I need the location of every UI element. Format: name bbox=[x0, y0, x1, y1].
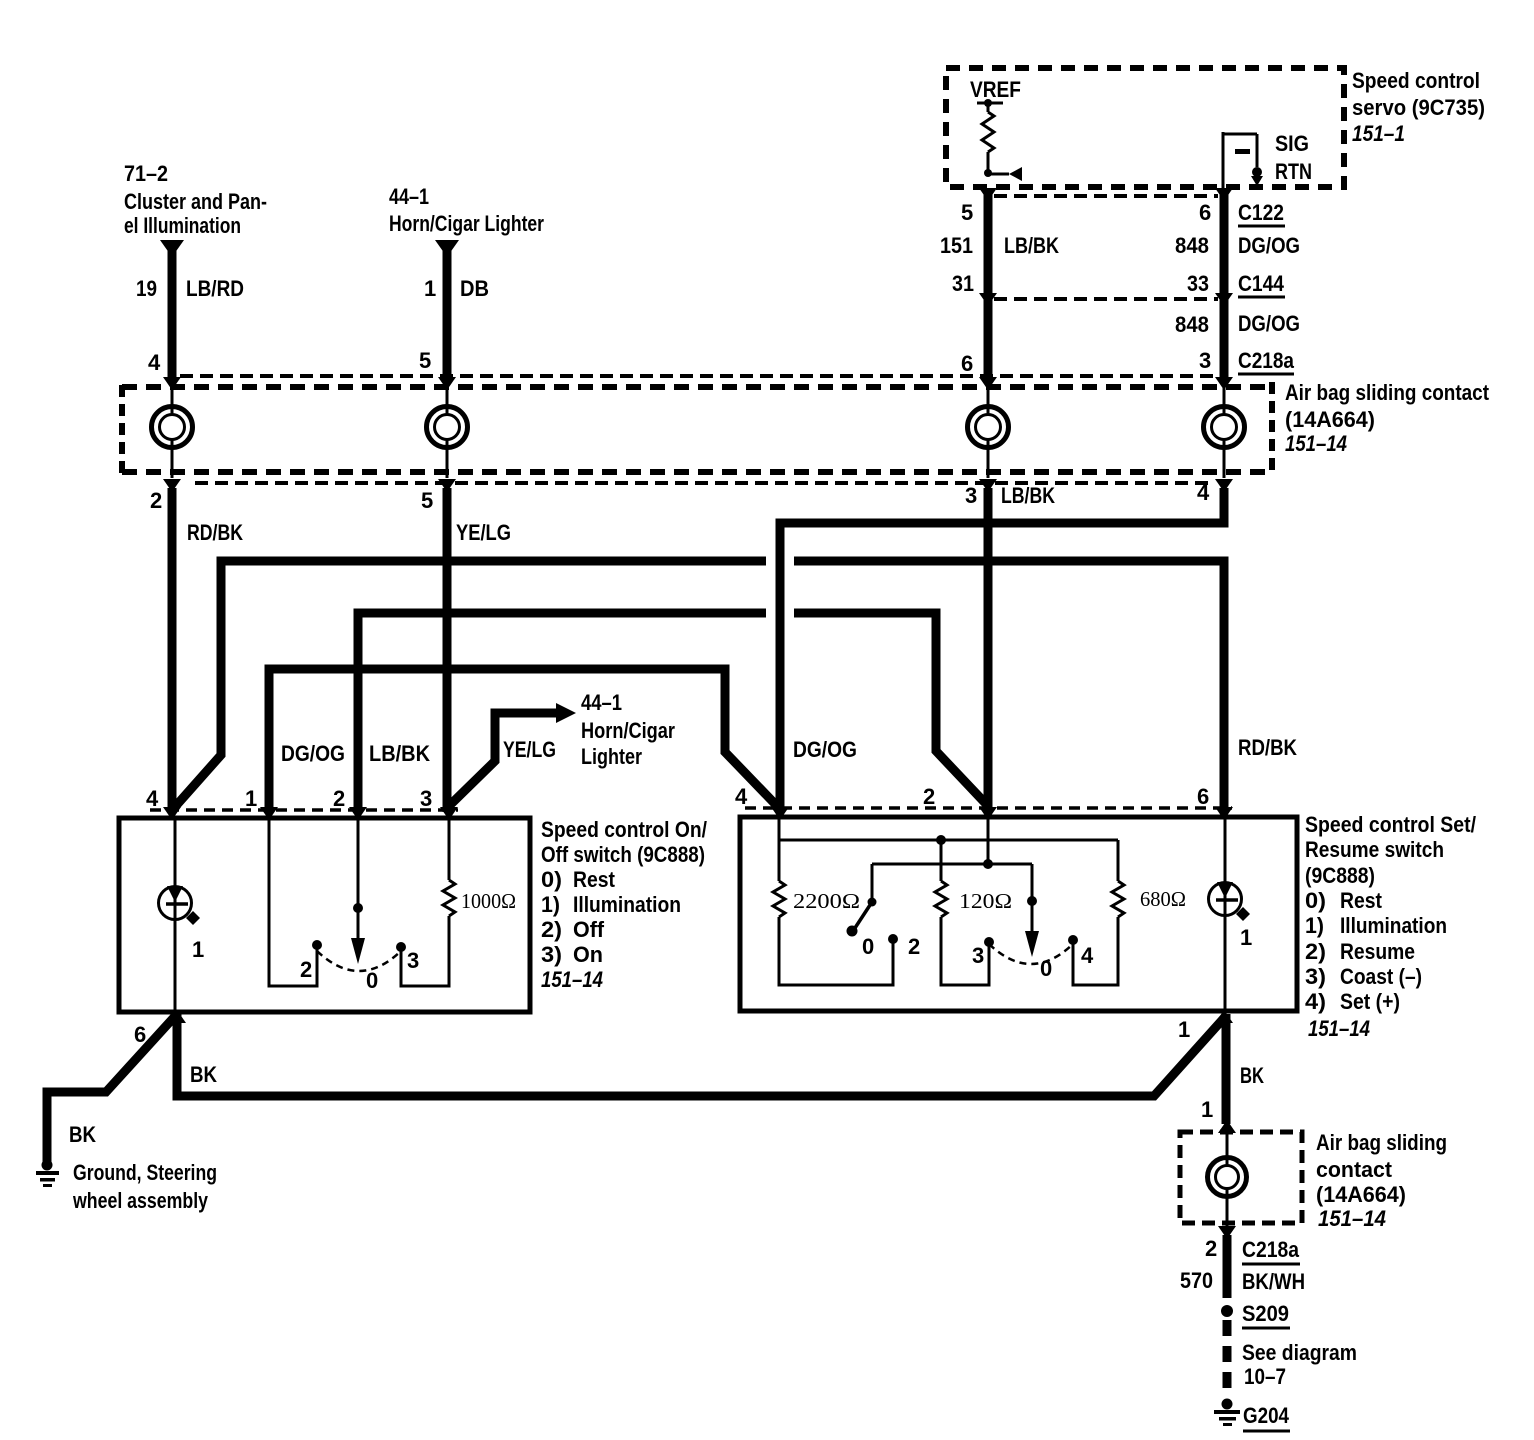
svg-text:DG/OG: DG/OG bbox=[1238, 311, 1300, 336]
svg-text:2: 2 bbox=[333, 786, 345, 811]
svg-text:RD/BK: RD/BK bbox=[1238, 735, 1297, 760]
svg-text:3: 3 bbox=[420, 786, 432, 811]
svg-text:1000Ω: 1000Ω bbox=[461, 889, 516, 913]
svg-text:1: 1 bbox=[1201, 1097, 1213, 1122]
svg-text:4: 4 bbox=[1197, 480, 1210, 505]
svg-text:4: 4 bbox=[1081, 943, 1094, 968]
svg-text:151–1: 151–1 bbox=[1352, 121, 1405, 146]
svg-text:2: 2 bbox=[150, 488, 162, 513]
svg-text:Ground, Steering: Ground, Steering bbox=[73, 1160, 217, 1185]
svg-text:2: 2 bbox=[908, 934, 920, 959]
svg-text:Air bag sliding: Air bag sliding bbox=[1316, 1130, 1447, 1155]
svg-text:Illumination: Illumination bbox=[1340, 913, 1447, 938]
svg-text:5: 5 bbox=[421, 488, 433, 513]
svg-text:Set (+): Set (+) bbox=[1340, 989, 1400, 1014]
svg-text:848: 848 bbox=[1175, 233, 1209, 258]
svg-text:3: 3 bbox=[407, 948, 419, 973]
svg-text:31: 31 bbox=[952, 271, 974, 296]
svg-text:DG/OG: DG/OG bbox=[1238, 233, 1300, 258]
svg-text:151–14: 151–14 bbox=[541, 967, 603, 992]
svg-text:2): 2) bbox=[1305, 939, 1326, 964]
svg-text:Illumination: Illumination bbox=[573, 892, 681, 917]
svg-text:680Ω: 680Ω bbox=[1140, 887, 1186, 911]
svg-text:0): 0) bbox=[1305, 888, 1326, 913]
svg-text:DG/OG: DG/OG bbox=[281, 741, 345, 766]
svg-text:2: 2 bbox=[923, 784, 935, 809]
svg-text:1: 1 bbox=[1240, 925, 1252, 950]
svg-text:DB: DB bbox=[460, 276, 489, 301]
svg-text:120Ω: 120Ω bbox=[959, 889, 1012, 913]
svg-text:Speed control: Speed control bbox=[1352, 68, 1480, 93]
svg-text:848: 848 bbox=[1175, 312, 1209, 337]
svg-text:1: 1 bbox=[424, 276, 436, 301]
svg-text:1): 1) bbox=[1305, 913, 1324, 938]
svg-text:el Illumination: el Illumination bbox=[124, 213, 241, 238]
svg-text:6: 6 bbox=[961, 351, 973, 376]
svg-text:C218a: C218a bbox=[1238, 348, 1295, 373]
svg-text:DG/OG: DG/OG bbox=[793, 737, 857, 762]
svg-text:wheel assembly: wheel assembly bbox=[72, 1188, 208, 1213]
svg-text:BK: BK bbox=[69, 1122, 96, 1147]
svg-text:Coast (–): Coast (–) bbox=[1340, 964, 1422, 989]
svg-text:BK: BK bbox=[1240, 1063, 1264, 1088]
svg-text:RTN: RTN bbox=[1275, 159, 1312, 184]
svg-text:See diagram: See diagram bbox=[1242, 1340, 1357, 1365]
svg-text:3): 3) bbox=[1305, 964, 1326, 989]
svg-text:44–1: 44–1 bbox=[581, 690, 622, 715]
svg-text:6: 6 bbox=[1197, 784, 1209, 809]
svg-text:4: 4 bbox=[146, 786, 159, 811]
svg-text:Horn/Cigar: Horn/Cigar bbox=[581, 718, 675, 743]
svg-text:servo (9C735): servo (9C735) bbox=[1352, 95, 1485, 120]
svg-text:3: 3 bbox=[965, 483, 977, 508]
svg-text:Air bag sliding contact: Air bag sliding contact bbox=[1285, 380, 1490, 405]
svg-text:BK/WH: BK/WH bbox=[1242, 1269, 1305, 1294]
svg-text:5: 5 bbox=[961, 200, 973, 225]
svg-text:71–2: 71–2 bbox=[124, 161, 168, 186]
svg-text:570: 570 bbox=[1180, 1268, 1213, 1293]
svg-text:2: 2 bbox=[1205, 1236, 1217, 1261]
svg-text:Speed control Set/: Speed control Set/ bbox=[1305, 812, 1476, 837]
svg-text:On: On bbox=[573, 942, 603, 967]
svg-text:151–14: 151–14 bbox=[1285, 431, 1347, 456]
svg-text:Off: Off bbox=[573, 917, 605, 942]
svg-text:1): 1) bbox=[541, 892, 560, 917]
svg-text:3): 3) bbox=[541, 942, 562, 967]
svg-text:YE/LG: YE/LG bbox=[503, 737, 556, 762]
svg-text:LB/BK: LB/BK bbox=[1001, 483, 1055, 508]
svg-text:151–14: 151–14 bbox=[1308, 1016, 1370, 1041]
svg-text:1: 1 bbox=[245, 786, 257, 811]
svg-text:4: 4 bbox=[735, 784, 748, 809]
svg-text:0): 0) bbox=[541, 867, 562, 892]
svg-text:C144: C144 bbox=[1238, 271, 1285, 296]
svg-text:Rest: Rest bbox=[1340, 888, 1383, 913]
svg-text:BK: BK bbox=[190, 1062, 217, 1087]
svg-text:S209: S209 bbox=[1242, 1301, 1289, 1326]
svg-text:LB/RD: LB/RD bbox=[186, 276, 244, 301]
svg-text:Rest: Rest bbox=[573, 867, 616, 892]
svg-text:G204: G204 bbox=[1243, 1403, 1290, 1428]
svg-text:C218a: C218a bbox=[1242, 1237, 1300, 1262]
svg-text:19: 19 bbox=[136, 276, 157, 301]
svg-text:4: 4 bbox=[148, 350, 161, 375]
svg-text:Horn/Cigar Lighter: Horn/Cigar Lighter bbox=[389, 211, 544, 236]
svg-text:Resume: Resume bbox=[1340, 939, 1415, 964]
svg-text:(9C888): (9C888) bbox=[1305, 863, 1375, 888]
svg-text:1: 1 bbox=[1178, 1017, 1190, 1042]
svg-text:3: 3 bbox=[972, 943, 984, 968]
svg-text:Lighter: Lighter bbox=[581, 744, 642, 769]
svg-text:contact: contact bbox=[1316, 1157, 1393, 1182]
svg-text:0: 0 bbox=[1040, 956, 1052, 981]
svg-text:2): 2) bbox=[541, 917, 562, 942]
svg-text:SIG: SIG bbox=[1275, 131, 1309, 156]
svg-text:3: 3 bbox=[1199, 348, 1211, 373]
svg-text:6: 6 bbox=[134, 1022, 146, 1047]
svg-text:Cluster and Pan-: Cluster and Pan- bbox=[124, 189, 267, 214]
svg-text:151–14: 151–14 bbox=[1318, 1206, 1386, 1231]
svg-text:5: 5 bbox=[419, 348, 431, 373]
svg-text:151: 151 bbox=[940, 233, 973, 258]
svg-text:Resume switch: Resume switch bbox=[1305, 837, 1444, 862]
svg-text:2: 2 bbox=[300, 957, 312, 982]
svg-text:Off switch (9C888): Off switch (9C888) bbox=[541, 842, 705, 867]
svg-text:LB/BK: LB/BK bbox=[1004, 233, 1059, 258]
svg-text:6: 6 bbox=[1199, 200, 1211, 225]
svg-text:YE/LG: YE/LG bbox=[456, 520, 511, 545]
svg-text:0: 0 bbox=[862, 934, 874, 959]
svg-text:RD/BK: RD/BK bbox=[187, 520, 243, 545]
svg-text:(14A664): (14A664) bbox=[1316, 1182, 1406, 1207]
svg-text:VREF: VREF bbox=[970, 77, 1021, 102]
svg-text:0: 0 bbox=[366, 968, 378, 993]
svg-text:(14A664): (14A664) bbox=[1285, 407, 1375, 432]
svg-text:Speed control On/: Speed control On/ bbox=[541, 817, 707, 842]
svg-text:4): 4) bbox=[1305, 989, 1326, 1014]
svg-text:2200Ω: 2200Ω bbox=[793, 889, 860, 913]
svg-text:C122: C122 bbox=[1238, 200, 1284, 225]
svg-text:1: 1 bbox=[192, 937, 204, 962]
svg-text:44–1: 44–1 bbox=[389, 184, 429, 209]
svg-text:33: 33 bbox=[1187, 271, 1209, 296]
svg-text:LB/BK: LB/BK bbox=[369, 741, 430, 766]
svg-text:10–7: 10–7 bbox=[1244, 1364, 1286, 1389]
